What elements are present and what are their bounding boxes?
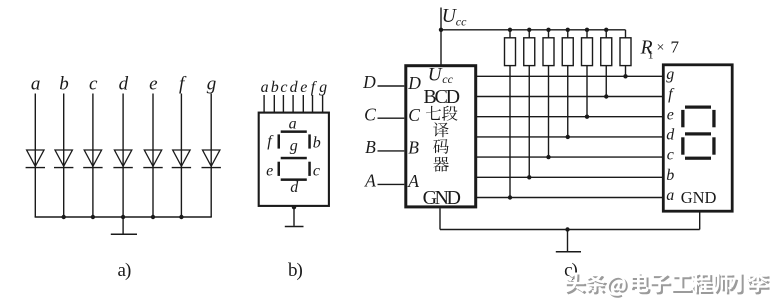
svg-text:BCD: BCD [423, 86, 459, 108]
svg-text:e: e [300, 79, 307, 96]
svg-text:cc: cc [456, 15, 467, 29]
svg-text:A: A [407, 171, 419, 191]
svg-text:c: c [280, 79, 287, 96]
svg-text:g: g [290, 137, 298, 154]
svg-text:cc: cc [442, 72, 453, 86]
svg-text:GND: GND [423, 187, 461, 209]
svg-text:a: a [261, 79, 269, 96]
svg-text:b: b [271, 79, 279, 96]
svg-text:c: c [313, 163, 320, 180]
svg-text:g: g [207, 74, 217, 95]
svg-text:a: a [666, 187, 674, 204]
svg-text:a: a [289, 116, 297, 133]
svg-text:a: a [31, 74, 41, 95]
svg-text:g: g [319, 79, 327, 96]
svg-text:C: C [408, 105, 420, 125]
svg-text:U: U [428, 64, 443, 85]
svg-text:c: c [89, 74, 98, 95]
svg-text:d: d [290, 79, 299, 96]
svg-text:c: c [667, 147, 674, 164]
svg-text:1: 1 [648, 48, 654, 62]
svg-text:B: B [365, 137, 376, 157]
svg-text:D: D [407, 73, 421, 93]
svg-text:g: g [666, 66, 674, 83]
svg-text:7: 7 [671, 38, 680, 57]
svg-text:C: C [364, 104, 376, 124]
svg-text:b): b) [288, 260, 303, 281]
svg-text:b: b [666, 167, 674, 184]
svg-text:d: d [666, 127, 675, 144]
svg-text:b: b [59, 74, 69, 95]
svg-text:GND: GND [681, 188, 717, 207]
svg-text:d: d [119, 74, 129, 95]
svg-text:a): a) [118, 260, 131, 281]
svg-text:e: e [266, 163, 273, 180]
svg-text:A: A [364, 171, 376, 191]
svg-text:×: × [657, 41, 665, 56]
svg-text:B: B [408, 138, 419, 158]
svg-text:e: e [667, 106, 674, 123]
svg-text:d: d [290, 179, 299, 196]
svg-text:e: e [149, 74, 157, 95]
svg-text:b: b [313, 135, 321, 152]
svg-text:D: D [362, 72, 376, 92]
